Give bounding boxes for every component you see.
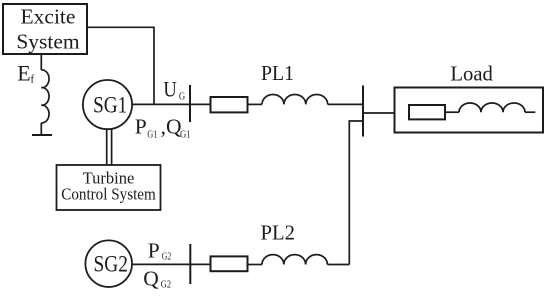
generator SG2 — [85, 240, 132, 287]
label QG2 — [143, 267, 171, 291]
svg-text:SG1: SG1 — [93, 92, 127, 117]
svg-text:G2: G2 — [162, 250, 171, 262]
inductor Lf (field winding) — [41, 70, 49, 123]
resistor R1 (PL1 series R) — [211, 97, 248, 112]
svg-text:System: System — [16, 29, 80, 53]
label PL1 — [261, 61, 294, 85]
wire: L2 to riser — [327, 264, 349, 266]
svg-text:G2: G2 — [161, 279, 171, 291]
generator SG1 — [83, 80, 132, 129]
svg-text:P: P — [148, 238, 160, 262]
wire: excite box bottom to field inductor — [40, 54, 42, 70]
bus node B1 (tick) — [189, 85, 191, 122]
svg-text:PL1: PL1 — [261, 61, 294, 85]
load box — [395, 88, 544, 133]
svg-text:G: G — [179, 91, 185, 103]
label PG2 — [148, 238, 172, 262]
load inductor LL — [459, 103, 525, 112]
label Ef — [17, 61, 34, 86]
wire: excite box to node UG (right then down) — [87, 27, 154, 104]
wire: bus B2 down to PL2 (jog left then down) — [349, 121, 363, 265]
svg-text:P: P — [135, 114, 147, 138]
inductor L2 (PL2) — [262, 255, 327, 265]
wire: LL stub — [525, 111, 535, 113]
svg-text:,Q: ,Q — [161, 114, 182, 138]
wire: SG2 to resistor R2 — [132, 263, 211, 265]
svg-text:PL2: PL2 — [261, 220, 296, 244]
ground — [32, 134, 52, 136]
turbine control system box U2 — [57, 165, 161, 210]
svg-text:U: U — [163, 77, 176, 102]
wire: R2 to L2 — [248, 264, 263, 266]
wire: L1 to bus B2 — [328, 103, 363, 105]
wire: RL to LL — [445, 111, 459, 113]
excite system box U3 — [3, 4, 87, 54]
load resistor RL — [409, 105, 445, 119]
bus node B2 (tick) — [362, 86, 364, 137]
svg-text:G1: G1 — [147, 128, 157, 140]
bus node B3 (tick) — [189, 244, 191, 284]
svg-text:Excite: Excite — [21, 4, 76, 28]
svg-text:Load: Load — [450, 61, 493, 85]
wire: SG1 to resistor R1 — [132, 103, 210, 105]
wire: R1 to L1 — [248, 103, 263, 105]
label PL2 — [261, 220, 296, 244]
svg-text:SG2: SG2 — [93, 252, 127, 277]
svg-text:Q: Q — [143, 267, 159, 291]
shaft: SG1 to turbine (double line) — [107, 129, 112, 165]
wire: bus B2 to load box — [363, 112, 395, 114]
svg-text:E: E — [17, 61, 30, 86]
resistor R2 (PL2 series R) — [211, 256, 248, 271]
inductor L1 (PL1) — [262, 95, 328, 105]
label PG1,QG1 — [135, 114, 191, 140]
svg-text:G1: G1 — [180, 128, 191, 140]
wire: inductor to ground — [40, 123, 42, 135]
label UG — [163, 77, 185, 103]
svg-text:f: f — [30, 74, 34, 86]
svg-text:Control System: Control System — [61, 185, 156, 204]
label Load — [450, 61, 493, 85]
